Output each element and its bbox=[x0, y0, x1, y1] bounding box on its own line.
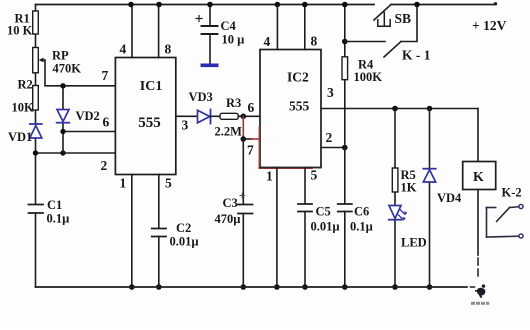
node junction R3 output bbox=[241, 114, 247, 120]
svg-text:C4: C4 bbox=[221, 19, 237, 33]
wire R4 to pin2 node and C6 bbox=[344, 80, 346, 287]
svg-text:0.1µ: 0.1µ bbox=[350, 220, 373, 234]
svg-text:7: 7 bbox=[247, 143, 254, 158]
node junction VD2 branch / pin2 line bbox=[60, 150, 65, 155]
svg-text:5: 5 bbox=[165, 176, 172, 191]
svg-text:10K: 10K bbox=[12, 101, 35, 115]
svg-text:8: 8 bbox=[165, 42, 172, 57]
wire IC2 pin 7 line bbox=[243, 138, 252, 140]
watermark tiny text bbox=[471, 302, 489, 305]
switch SB pushbutton bbox=[374, 5, 391, 21]
svg-text:8: 8 bbox=[311, 34, 318, 49]
wire IC2 pin 1 to ground rail bbox=[276, 168, 278, 287]
svg-text:6: 6 bbox=[248, 100, 255, 115]
diode VD4 bbox=[423, 168, 435, 170]
node rail junction pin8 IC2 bbox=[302, 2, 308, 8]
relay contact K-2 bbox=[486, 208, 488, 238]
wire R4 branch from rail bbox=[344, 5, 346, 57]
diode VD2 bbox=[57, 110, 69, 122]
svg-text:+ 12V: + 12V bbox=[472, 18, 507, 33]
node rail junction K-1 bbox=[414, 2, 420, 8]
node junction pin2 / R4 / C6 bbox=[342, 145, 348, 151]
svg-text:VD4: VD4 bbox=[437, 191, 462, 205]
svg-text:3: 3 bbox=[327, 85, 334, 100]
svg-text:4: 4 bbox=[120, 42, 127, 57]
node junction pin3 / VD4 branch bbox=[427, 106, 433, 112]
wire VD2 branch vertical bbox=[62, 86, 64, 153]
svg-text:2.2M: 2.2M bbox=[215, 125, 243, 139]
wire IC1 pin 2 line bbox=[36, 152, 116, 154]
svg-text:K-2: K-2 bbox=[502, 186, 522, 200]
svg-text:555: 555 bbox=[138, 115, 161, 131]
capacitor C6 bbox=[338, 204, 352, 212]
svg-text:3: 3 bbox=[182, 118, 189, 133]
svg-text:470µ: 470µ bbox=[215, 212, 241, 226]
potentiometer RP bbox=[33, 48, 39, 73]
wire IC1 pin 8 to rail bbox=[158, 5, 160, 58]
wire IC1 pin 6 line bbox=[63, 131, 115, 133]
wire IC1 pin 5 upper segment bbox=[158, 175, 160, 229]
capacitor C3 bbox=[238, 205, 253, 214]
wire left vertical branch segments bbox=[35, 5, 37, 288]
node junction VD2 branch / pin6 line bbox=[60, 129, 65, 134]
resistor R3 bbox=[220, 113, 238, 119]
diode VD3 bbox=[198, 110, 210, 123]
LED indicator diode bbox=[389, 206, 401, 219]
node rail junction R4 branch bbox=[342, 2, 348, 8]
op-amp IC1 555 timer box bbox=[115, 58, 175, 175]
ground bar of C4 (blue) bbox=[201, 64, 219, 68]
node ground junction C2 bbox=[156, 284, 162, 290]
node junction wiper line / VD2 bbox=[60, 83, 65, 88]
op-amp IC2 555 timer box bbox=[260, 50, 321, 168]
svg-text:555: 555 bbox=[289, 99, 310, 114]
resistor R2 bbox=[33, 86, 39, 111]
svg-text:R3: R3 bbox=[226, 96, 241, 110]
node ground junction pin1 IC2 bbox=[274, 284, 280, 290]
node junction pin7 link bbox=[241, 136, 247, 142]
svg-text:IC2: IC2 bbox=[287, 70, 309, 85]
node ground junction C6 bbox=[342, 284, 348, 290]
wire C2 to ground rail bbox=[158, 237, 160, 288]
svg-text:SB: SB bbox=[395, 11, 412, 26]
wire relay coil to ground rail (with dashed end) bbox=[477, 190, 479, 256]
wire VD3 to R3 bbox=[211, 115, 221, 117]
capacitor C2 bbox=[152, 229, 166, 237]
svg-text:C2: C2 bbox=[176, 221, 191, 235]
svg-text:1: 1 bbox=[120, 176, 127, 191]
svg-text:2: 2 bbox=[101, 158, 108, 173]
svg-text:1K: 1K bbox=[401, 181, 417, 195]
svg-text:0.01µ: 0.01µ bbox=[311, 220, 340, 234]
capacitor C5 bbox=[298, 204, 312, 212]
watermark blob bbox=[475, 284, 485, 298]
node top rail end point bbox=[494, 2, 497, 5]
svg-text:C3: C3 bbox=[223, 196, 238, 210]
svg-text:10 K: 10 K bbox=[7, 24, 33, 38]
wire R3 to IC2 pin 6 bbox=[238, 115, 260, 117]
node rail junction pin8 IC1 bbox=[156, 2, 162, 8]
wire IC2 pin 2 line bbox=[321, 147, 345, 149]
svg-text:VD1: VD1 bbox=[8, 130, 32, 144]
svg-text:VD2: VD2 bbox=[76, 109, 100, 123]
relay coil K bbox=[463, 162, 496, 190]
svg-text:5: 5 bbox=[311, 168, 318, 183]
diode VD1 bbox=[30, 123, 42, 125]
wire R5 branch bbox=[394, 109, 396, 288]
wire C3 branch vertical bbox=[242, 139, 244, 287]
svg-text:K: K bbox=[473, 170, 484, 185]
svg-text:2: 2 bbox=[326, 130, 333, 145]
svg-text:C5: C5 bbox=[316, 205, 331, 219]
capacitor C4 electrolytic bbox=[209, 5, 211, 26]
node ground junction LED bbox=[392, 284, 398, 290]
wire ground bottom rail bbox=[36, 286, 468, 288]
wire RP wiper to IC1 pin 7 bbox=[45, 60, 115, 86]
resistor R5 bbox=[392, 168, 398, 192]
svg-text:R2: R2 bbox=[18, 78, 33, 92]
svg-text:C6: C6 bbox=[354, 205, 369, 219]
svg-text:4: 4 bbox=[264, 34, 271, 49]
wire IC1 pin 4 to rail bbox=[131, 5, 133, 58]
wire top supply rail right segment bbox=[391, 4, 494, 6]
node ground junction pin1 IC1 bbox=[129, 284, 135, 290]
capacitor C1 bbox=[29, 205, 44, 214]
wire top supply rail left segment bbox=[36, 4, 375, 6]
svg-text:470K: 470K bbox=[53, 62, 82, 76]
svg-text:C1: C1 bbox=[47, 198, 62, 212]
wire red link pin6 to pin7 of IC2 bbox=[242, 116, 244, 139]
svg-text:10 µ: 10 µ bbox=[222, 33, 245, 47]
svg-text:0.01µ: 0.01µ bbox=[170, 235, 199, 249]
svg-text:7: 7 bbox=[102, 68, 109, 83]
wire IC1 pin 3 output bbox=[176, 115, 197, 117]
resistor R1 bbox=[33, 11, 39, 34]
wire IC2 pin 4 to rail bbox=[276, 5, 278, 50]
svg-text:6: 6 bbox=[103, 115, 110, 130]
svg-text:VD3: VD3 bbox=[189, 90, 213, 104]
wire IC2 pin 5 upper segment bbox=[304, 168, 306, 204]
resistor R4 bbox=[342, 57, 348, 80]
node rail junction pin4 IC2 bbox=[275, 2, 281, 8]
wire IC1 pin 1 to ground rail bbox=[131, 175, 133, 288]
svg-text:RP: RP bbox=[52, 49, 69, 63]
capacitor C3 polarity mark bbox=[240, 193, 245, 198]
svg-text:K - 1: K - 1 bbox=[402, 48, 431, 63]
svg-text:100K: 100K bbox=[354, 70, 383, 84]
node ground junction C3 bbox=[241, 284, 247, 290]
svg-text:0.1µ: 0.1µ bbox=[47, 212, 70, 226]
relay contact K-1 bbox=[345, 41, 385, 43]
red marks on IC2 left and bottom edge bbox=[259, 127, 312, 168]
svg-text:IC1: IC1 bbox=[140, 79, 163, 94]
wire C5 to ground rail bbox=[304, 212, 306, 288]
wire IC2 pin 3 output line bbox=[321, 108, 478, 110]
node rail junction pin4 IC1 bbox=[128, 2, 134, 8]
node ground junction C5 bbox=[302, 284, 308, 290]
wire IC2 pin 8 to rail bbox=[304, 5, 306, 50]
node ground junction VD4 bbox=[427, 284, 433, 290]
node junction pin3 / R5 branch bbox=[392, 106, 398, 112]
node junction K-1 line / R4 bbox=[342, 39, 348, 45]
wire relay coil branch bbox=[477, 109, 479, 162]
svg-text:LED: LED bbox=[401, 236, 427, 250]
node junction left wire / pin2 line bbox=[33, 150, 38, 155]
wire VD4 branch bbox=[429, 109, 431, 288]
svg-text:1: 1 bbox=[266, 169, 273, 184]
